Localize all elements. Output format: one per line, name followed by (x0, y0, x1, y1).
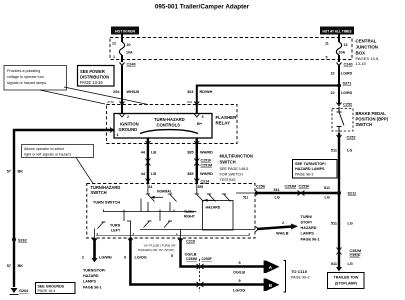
svg-text:3: 3 (202, 115, 204, 119)
svg-text:S371: S371 (343, 82, 352, 86)
wire 511 LG from S211 to trailer tow (338, 193, 340, 267)
svg-text:C253M: C253M (186, 257, 197, 261)
svg-text:10: 10 (331, 72, 335, 76)
offpage arrow B (264, 279, 280, 292)
svg-text:A: A (269, 265, 273, 271)
svg-text:TURN/: TURN/ (301, 215, 314, 219)
fuse 20A right (336, 42, 341, 55)
connector pair C251 on wire 44 (145, 159, 150, 166)
svg-text:HAZARD) OR '0V' (STOP): HAZARD) OR '0V' (STOP) (138, 248, 174, 252)
svg-text:TURN/STOP/: TURN/STOP/ (83, 269, 105, 273)
pin 2 (120, 114, 125, 117)
flasher relay inner box (114, 114, 212, 139)
wire 44 LB flasher to switch (147, 138, 149, 184)
offpage arrow A (264, 261, 280, 274)
hazard sub box (203, 201, 234, 231)
svg-text:10A: 10A (126, 51, 133, 55)
svg-text:2: 2 (127, 115, 129, 119)
wire 294 WH/LB left column (121, 66, 123, 105)
svg-text:57: 57 (7, 264, 11, 268)
svg-text:S262: S262 (18, 239, 27, 243)
exit runs (140, 229, 255, 231)
connector C253 on 511 wire (298, 191, 305, 196)
svg-text:LG: LG (347, 149, 352, 153)
svg-text:13-15: 13-15 (356, 61, 367, 66)
svg-text:44: 44 (149, 185, 153, 189)
BPP switch text (356, 111, 389, 127)
svg-text:SEE TURN/STOP/: SEE TURN/STOP/ (295, 162, 326, 166)
svg-text:FOR SWITCH: FOR SWITCH (220, 173, 244, 177)
svg-text:C352M: C352M (350, 249, 362, 253)
svg-text:20: 20 (127, 43, 131, 47)
svg-text:C253F: C253F (202, 257, 212, 261)
svg-text:SWITCH: SWITCH (220, 160, 236, 165)
svg-text:385: 385 (187, 151, 193, 155)
connector C252 upper (337, 103, 342, 106)
svg-text:Provides a pulsating: Provides a pulsating (7, 69, 40, 73)
svg-text:TRAILER TOW: TRAILER TOW (334, 276, 359, 280)
svg-text:HOT AT ALL TIMES: HOT AT ALL TIMES (322, 29, 351, 33)
ground G204 (11, 288, 18, 293)
svg-text:LB: LB (151, 151, 156, 155)
svg-text:WH/RD: WH/RD (200, 172, 213, 176)
svg-text:C251M: C251M (201, 164, 213, 168)
pin 3 (194, 114, 199, 117)
svg-text:GROUND: GROUND (119, 127, 138, 132)
svg-text:C253F: C253F (299, 184, 311, 188)
svg-text:WH: WH (187, 100, 192, 104)
svg-text:12: 12 (112, 42, 116, 46)
svg-text:C352F: C352F (350, 254, 362, 258)
svg-text:LG/WH: LG/WH (99, 256, 112, 260)
svg-text:SEE POWER: SEE POWER (80, 69, 105, 74)
svg-text:HAZARD: HAZARD (301, 226, 317, 230)
contact bus row (103, 211, 197, 213)
svg-text:385: 385 (198, 185, 204, 189)
svg-text:RIGHT: RIGHT (184, 215, 196, 219)
wire 511 LG below BPP (338, 133, 340, 193)
wire 385 WH/RD flasher to switch (196, 138, 198, 184)
wire 2 WH/LB to turn/stop/hazard lamps (257, 227, 292, 230)
bracket to C115 (284, 261, 286, 293)
svg-text:RD/WH: RD/WH (200, 90, 213, 94)
note: pulsating voltage callout (4, 66, 148, 105)
wire 511 LG from multifunction switch to S211 (255, 192, 339, 194)
pulse note text (138, 243, 176, 252)
svg-text:LG: LG (348, 222, 353, 226)
connector C252 lower (337, 135, 342, 138)
svg-text:C240: C240 (344, 63, 353, 67)
svg-text:C240: C240 (127, 63, 136, 67)
connector pair C251F C251M (194, 159, 199, 166)
svg-text:DISTRIBUTION: DISTRIBUTION (80, 75, 109, 80)
svg-text:BK: BK (18, 264, 24, 268)
brake pedal position switch dashed box (332, 109, 353, 132)
svg-text:C214: C214 (201, 180, 210, 184)
svg-text:C252: C252 (347, 135, 356, 139)
511 feed inside switch (236, 192, 255, 194)
svg-text:57: 57 (7, 169, 11, 173)
svg-text:C253M: C253M (285, 184, 297, 188)
svg-text:LG/OG: LG/OG (233, 289, 245, 293)
multifunction switch note text (220, 154, 253, 183)
svg-text:SWITCH: SWITCH (91, 190, 107, 195)
see power distribution box (78, 66, 115, 87)
svg-text:11: 11 (325, 42, 329, 46)
ground wire from flasher left to chassis (14, 130, 114, 287)
svg-text:right or left signals or hazar: right or left signals or hazard. (24, 153, 72, 157)
svg-text:TURN-HAZARD: TURN-HAZARD (154, 117, 185, 122)
svg-text:2: 2 (82, 256, 84, 260)
svg-text:RELAY: RELAY (216, 121, 231, 126)
svg-text:13: 13 (344, 43, 348, 47)
svg-text:Allows operator to select: Allows operator to select (24, 147, 64, 151)
switch internal wiring (95, 184, 256, 239)
svg-text:PAGE 99-2: PAGE 99-2 (291, 276, 309, 280)
svg-text:HOT IN RUN: HOT IN RUN (115, 29, 135, 33)
wire 9 LG/OG to trailer (130, 238, 266, 285)
svg-text:PAGE 13-16: PAGE 13-16 (80, 80, 103, 85)
svg-text:363: 363 (187, 90, 193, 94)
svg-text:BK: BK (18, 169, 24, 173)
svg-text:(STOPLAMP): (STOPLAMP) (335, 282, 358, 286)
central junction box text (356, 39, 380, 67)
svg-text:MULTIFUNCTION: MULTIFUNCTION (220, 154, 253, 159)
svg-text:WH/RD: WH/RD (200, 151, 213, 155)
see grounds box (36, 283, 76, 294)
svg-text:511: 511 (331, 222, 337, 226)
svg-text:C251F: C251F (201, 159, 213, 163)
svg-text:511: 511 (331, 149, 337, 153)
svg-text:WH/LB: WH/LB (127, 90, 140, 94)
svg-text:LG: LG (275, 196, 280, 200)
svg-text:4: 4 (117, 133, 119, 137)
internal bus brace (140, 130, 198, 134)
svg-text:LG/OG: LG/OG (135, 256, 147, 260)
svg-text:095-001 Trailer/Camper Adapter: 095-001 Trailer/Camper Adapter (155, 4, 250, 11)
svg-text:(P/N): (P/N) (107, 100, 114, 104)
svg-text:511: 511 (324, 186, 330, 190)
wire from HOT IN RUN to fuse (121, 35, 123, 43)
svg-text:voltage to operate turn: voltage to operate turn (7, 75, 44, 79)
svg-text:511: 511 (274, 188, 280, 192)
svg-text:PAGE 96-3: PAGE 96-3 (295, 173, 313, 177)
svg-text:C210: C210 (186, 240, 195, 244)
svg-text:signals or hazard lamps.: signals or hazard lamps. (7, 81, 47, 85)
svg-text:9: 9 (124, 256, 126, 260)
svg-text:HAZARD: HAZARD (206, 206, 221, 210)
svg-text:LG/RD: LG/RD (341, 72, 353, 76)
svg-text:5: 5 (171, 254, 173, 258)
hot at all times label box (320, 27, 354, 35)
splice S262 (12, 238, 16, 242)
svg-text:294: 294 (113, 90, 120, 94)
svg-text:10: 10 (331, 91, 335, 95)
svg-text:SEE GROUNDS: SEE GROUNDS (38, 285, 65, 289)
svg-text:BRAKE PEDAL: BRAKE PEDAL (356, 111, 387, 116)
svg-text:HAZARD: HAZARD (83, 274, 99, 278)
svg-text:S211: S211 (348, 192, 357, 196)
note: operator select callout (22, 145, 94, 184)
svg-text:BOX: BOX (356, 51, 366, 56)
svg-text:NORMAL: NORMAL (157, 189, 172, 193)
svg-text:TURN: TURN (184, 210, 194, 214)
wire 2 LG/WH to front lamps (93, 238, 96, 258)
wire 10 LG/RD upper right column (338, 66, 340, 105)
svg-text:WH/LB: WH/LB (276, 232, 289, 236)
svg-text:TESTING: TESTING (220, 178, 236, 182)
svg-text:C252: C252 (343, 103, 352, 107)
switch exit arrows (92, 239, 97, 242)
svg-text:STOP/: STOP/ (301, 221, 313, 225)
svg-text:SEE PAGE 148-5: SEE PAGE 148-5 (220, 167, 249, 171)
central junction box (dashed) (110, 38, 352, 60)
connector C352M C352F (337, 248, 342, 255)
svg-text:511: 511 (331, 262, 337, 266)
hot in run label box (111, 27, 139, 35)
svg-text:LG: LG (348, 262, 353, 266)
svg-text:G204: G204 (19, 289, 29, 293)
svg-text:TURN SWITCH: TURN SWITCH (93, 200, 120, 205)
svg-text:5: 5 (326, 56, 328, 60)
turn/stop/hazard lamps box right (293, 160, 338, 179)
svg-text:B+: B+ (197, 121, 203, 126)
lower contacts (123, 212, 125, 222)
svg-text:20A: 20A (339, 51, 346, 55)
svg-text:B: B (269, 283, 273, 289)
svg-text:C256: C256 (256, 185, 265, 189)
svg-text:PAGE 96-1: PAGE 96-1 (83, 286, 102, 290)
svg-text:LAMPS: LAMPS (83, 280, 96, 284)
svg-text:IGNITION: IGNITION (120, 122, 139, 127)
svg-text:HAZARD LAMPS: HAZARD LAMPS (295, 167, 325, 171)
svg-text:LAMPS: LAMPS (301, 232, 315, 236)
svg-text:CONTROLS: CONTROLS (157, 123, 181, 128)
svg-text:JUNCTION: JUNCTION (356, 45, 378, 50)
svg-text:TO C115: TO C115 (291, 269, 308, 274)
arrow into flasher box left pin (120, 102, 125, 105)
connector C240 right (337, 63, 342, 66)
svg-text:POSITION (BPP): POSITION (BPP) (356, 117, 389, 122)
wire branch from S371 to flasher pin 3 (197, 86, 339, 105)
svg-text:LEFT: LEFT (111, 229, 121, 233)
svg-text:OG/LB: OG/LB (233, 271, 245, 275)
wire from HOT AT ALL TIMES to fuse (338, 35, 340, 43)
svg-text:511: 511 (243, 196, 248, 200)
svg-text:385: 385 (187, 172, 193, 176)
svg-text:FLASHER: FLASHER (216, 115, 238, 120)
flasher relay label (216, 115, 238, 126)
connector C253 boundary dashed (199, 259, 201, 292)
svg-text:2: 2 (282, 221, 284, 225)
svg-text:PAGE 16-4: PAGE 16-4 (38, 289, 56, 293)
svg-text:LB: LB (151, 172, 156, 176)
splice S211 (337, 191, 341, 195)
flasher text (119, 117, 203, 132)
splice S371 (337, 84, 341, 88)
BPP switch contacts (338, 107, 340, 113)
svg-text:CENTRAL: CENTRAL (356, 39, 377, 44)
svg-text:OG/LB: OG/LB (185, 253, 197, 257)
svg-text:LG: LG (325, 196, 330, 200)
flasher relay dashed box (107, 105, 238, 144)
svg-text:9: 9 (239, 279, 241, 283)
svg-text:LG/RD: LG/RD (341, 91, 353, 95)
svg-text:PAGE 96-1: PAGE 96-1 (301, 238, 320, 242)
trailer tow stoplamp box (328, 273, 365, 289)
connector C214 (194, 179, 199, 182)
svg-text:'0V' PULSE (TURN OR: '0V' PULSE (TURN OR (144, 243, 177, 247)
fuse 20A left (119, 42, 124, 55)
svg-text:5: 5 (239, 261, 241, 265)
turn/hazard switch dashed box (87, 184, 255, 239)
svg-text:TURN: TURN (110, 224, 121, 228)
connector C240 left (120, 63, 125, 66)
svg-text:SWITCH: SWITCH (356, 122, 373, 127)
svg-text:1: 1 (113, 55, 115, 59)
